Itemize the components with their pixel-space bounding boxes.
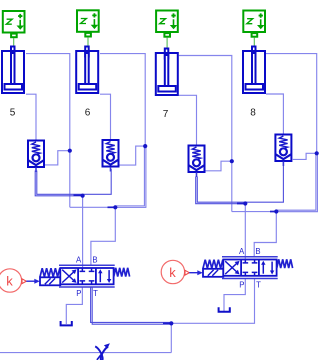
sensor S8 link line [253,38,255,48]
wire V1 bottom pair line b to node A1 [35,171,82,196]
wire dark approach node A2 [237,203,245,205]
cylinder 8 [243,47,265,94]
junction node1 [68,149,72,153]
junction node A2 [243,201,247,205]
wire DV1 port T pair line b [92,287,171,324]
svg-text:7: 7 [163,109,169,120]
wire cyl5 top port to down-column [26,54,70,208]
cylinder 7 [156,49,178,96]
junction node B1 [113,205,117,209]
wire DV2 port A [244,204,246,259]
wire DV2 port T to node J [171,279,254,324]
wire rod-net run cyl7 corner to node B2 [232,211,276,213]
cylinder 5 [2,47,24,94]
proportional valve DV2 with k label [161,257,292,284]
junction node J [169,321,173,325]
junction node B2 [274,209,278,213]
wire dark approach node B1 [108,206,116,208]
wire cyl6 bottom port to V2 [100,94,111,139]
svg-text:B: B [92,256,97,265]
svg-text:8: 8 [250,108,256,119]
sensor S6 [77,10,99,36]
cylinder 6 [76,47,98,94]
wire V3 bottom pair line a to V4 bottom [197,163,283,202]
proportional valve DV1 with k label [0,265,130,292]
junction node4 [230,159,234,163]
svg-text:B: B [255,247,260,256]
wire dark approach node J [163,322,171,324]
wire DV1 port P to tank [66,287,82,324]
junction node A1 [81,194,85,198]
svg-text:P: P [239,281,244,290]
wire V1 right port elbow to node1 [45,151,70,165]
wire DV1 port T pair line a [91,287,172,322]
sensor S5 [3,11,25,37]
sensor S7 link line [166,38,168,50]
wire DV2 port P to tank [224,279,245,312]
wire rod-net doubled run node B1 to cyl6 column [115,147,146,207]
wire cyl7 bottom port to V3 [179,95,197,145]
wire cyl8 bottom port to V4 [266,94,283,134]
wire node J down to bottom line [170,323,172,352]
wire V2 right port elbow to node2 [119,146,145,165]
check valve V3 [189,146,205,178]
wire V1 bottom pair line a to V2 bottom [37,169,111,194]
wire DV1 port A [82,196,84,267]
throttle valve bottom [95,343,110,360]
svg-text:T: T [256,281,261,290]
tank T2 [219,307,230,311]
junction node2 [143,144,147,148]
check valve V2 [103,140,119,172]
wire V4 right port elbow to node3 [293,153,317,159]
wire dark approach node B2 [270,211,276,213]
check valve V4 [275,135,291,167]
wire rod-net run cyl5 corner to node B1 [70,206,116,208]
svg-text:T: T [93,289,98,298]
wire cyl8 top port [266,54,317,154]
wire DV2 port B elbow [254,212,276,258]
sensor S8 [243,11,265,37]
tank T1 [61,321,72,325]
sensor S7 [156,11,178,37]
svg-text:5: 5 [10,108,16,119]
sensor S6 link line [87,37,89,47]
svg-text:6: 6 [85,108,91,119]
check valve V1 [28,141,44,173]
svg-text:A: A [239,247,245,256]
wire V3 bottom pair line b to node A2 [196,177,246,204]
wire cyl6 top port [100,54,145,147]
wire cyl5 bottom port to V1 [26,94,36,140]
wire cyl7 top port to down-column [179,56,232,212]
svg-text:P: P [76,289,81,298]
wire rod-net doubled run node B2 to cyl8 column [276,154,317,212]
junction node3 [315,151,319,155]
wire V3 right port elbow to node4 [206,161,232,171]
svg-text:A: A [76,256,82,265]
wire dark approach node A1 [74,194,83,196]
wire bottom supply line [0,352,171,354]
sensor S5 link line [13,38,15,47]
wire DV1 port B elbow [91,207,115,266]
